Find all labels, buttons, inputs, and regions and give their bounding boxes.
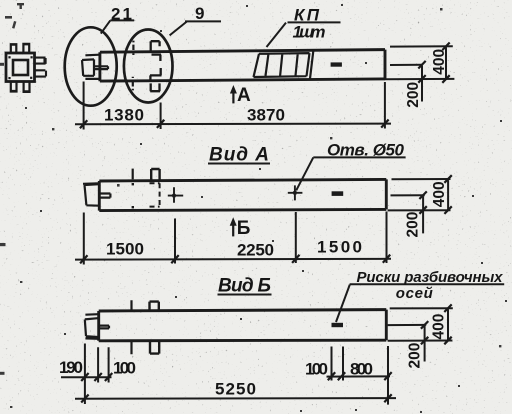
xsec right tab upper — [35, 58, 46, 64]
column cross-section symbol: outer square — [6, 53, 35, 82]
svg-text:А: А — [237, 85, 251, 106]
svg-text:9: 9 — [195, 4, 204, 23]
svg-text:1 шт: 1 шт — [293, 23, 326, 42]
svg-text:5250: 5250 — [215, 380, 256, 399]
dim 100/800 right bottom view — [327, 375, 391, 377]
svg-text:400: 400 — [431, 314, 448, 340]
extension line right end top view — [384, 82, 386, 129]
svg-text:осей: осей — [396, 285, 433, 302]
svg-text:3870: 3870 — [247, 106, 285, 125]
svg-text:1500: 1500 — [106, 240, 144, 259]
beam body bottom view — [99, 310, 387, 341]
leader riski — [336, 284, 504, 322]
xsec top tab right — [23, 44, 30, 53]
hidden dashed bracket middle view — [150, 183, 160, 206]
axis tick + dots middle view — [132, 169, 134, 180]
fork end detail bottom view — [85, 314, 109, 339]
svg-text:200: 200 — [407, 343, 424, 369]
svg-text:Вид Б: Вид Б — [218, 276, 271, 297]
svg-text:Риски разбивочных: Риски разбивочных — [357, 269, 504, 286]
extension line 1380 axis — [160, 103, 162, 130]
svg-text:400: 400 — [431, 49, 448, 75]
svg-text:100: 100 — [113, 359, 136, 378]
fork end detail top view — [82, 55, 108, 79]
axis dash-dot marks upper (component 9 centerline) — [132, 41, 135, 91]
hole center mark right — [288, 185, 303, 200]
axis ticks bottom view — [130, 300, 132, 354]
overall dimension line 5250 — [75, 397, 396, 400]
extension line left end top view — [83, 82, 85, 130]
middle view dimension line 1500/2250/1500 — [75, 258, 391, 261]
dim 190/100 left bottom view — [61, 376, 112, 378]
tick marks top dim — [80, 120, 389, 129]
anchor plate 9 middle marks — [150, 68, 162, 80]
leader + label 21 — [101, 20, 134, 33]
svg-text:200: 200 — [405, 82, 422, 108]
tick marks middle dim — [80, 255, 390, 264]
svg-text:100: 100 — [305, 360, 328, 379]
KP hatched plate — [254, 49, 314, 78]
riska mark top view — [331, 62, 342, 66]
xsec bottom tab right — [23, 82, 30, 92]
svg-text:Вид А: Вид А — [209, 145, 269, 166]
right side 200 dim bottom view — [388, 325, 427, 362]
svg-text:400: 400 — [431, 181, 448, 207]
title underline Vid A — [208, 163, 270, 165]
anchor plate stub above beam bottom view — [150, 302, 159, 311]
svg-text:1380: 1380 — [104, 106, 144, 125]
anchor plate 9 stub above beam middle view — [151, 169, 159, 180]
inner square — [13, 60, 28, 75]
balloon ellipse 9 — [124, 30, 173, 103]
riska mark middle view — [332, 191, 344, 196]
balloon ellipse 21 — [65, 27, 117, 105]
right side 200 dim middle view — [391, 195, 425, 233]
right side 400 dim top view — [385, 46, 455, 79]
leader Otv 50 — [296, 157, 405, 190]
anchor plate 9 lower bracket — [150, 83, 160, 91]
section arrow A — [230, 85, 237, 103]
right side 200 dim top view — [390, 65, 423, 102]
svg-text:2250: 2250 — [237, 241, 274, 260]
title underline Vid B — [218, 294, 272, 296]
xsec bottom tab left — [10, 82, 17, 92]
hole center mark left — [168, 187, 183, 202]
beam body top view — [100, 50, 385, 82]
leader KP — [267, 22, 341, 47]
anchor plate stub below beam bottom view — [150, 341, 159, 354]
right side 400 dim middle view — [388, 179, 451, 211]
svg-text:Отв. Ø50: Отв. Ø50 — [327, 141, 405, 160]
riska mark bottom view — [332, 323, 344, 327]
right side 400 dim bottom view — [388, 308, 453, 341]
xsec right tab lower — [35, 70, 46, 76]
top view dimension line 1380/3870 — [75, 123, 391, 126]
extension lines middle view — [84, 212, 387, 265]
svg-text:190: 190 — [59, 358, 83, 377]
section arrow B — [230, 217, 237, 236]
svg-text:200: 200 — [405, 212, 422, 238]
svg-text:800: 800 — [350, 360, 373, 379]
fork end detail middle view — [83, 183, 110, 205]
beam body middle view — [99, 179, 386, 210]
xsec corner dots — [8, 56, 32, 79]
anchor plate 9 upper bracket — [151, 41, 161, 61]
xsec top tab left — [10, 44, 16, 52]
svg-text:Б: Б — [237, 218, 251, 239]
leader + label 9 — [170, 21, 221, 35]
